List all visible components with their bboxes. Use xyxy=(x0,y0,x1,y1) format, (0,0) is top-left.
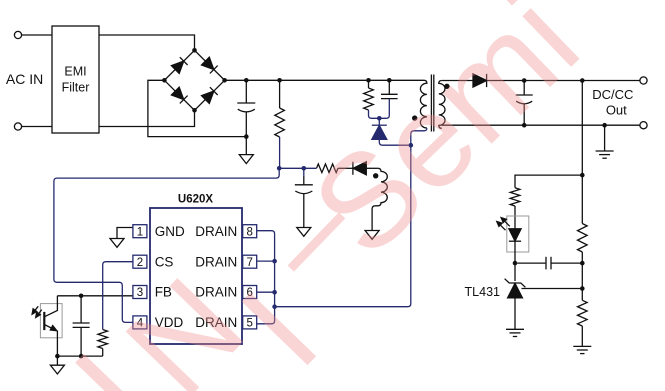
ground opto (arrow style) xyxy=(56,356,58,365)
terminal AC top xyxy=(14,31,21,38)
wire pin1 to ground xyxy=(117,228,133,239)
diode output D5 xyxy=(473,74,487,87)
ground output (earth style) xyxy=(604,125,606,151)
ground aux (arrow style) xyxy=(365,231,379,240)
capacitor snubber C2 xyxy=(388,80,390,94)
terminal AC bottom xyxy=(14,123,21,130)
pin 8 box xyxy=(243,225,257,238)
svg-text:DC/CC: DC/CC xyxy=(592,87,633,102)
bridge diode D-BR (anode bottom vertex, cathode right) xyxy=(202,91,214,103)
wire CS loop pin2 to resistor xyxy=(103,262,133,330)
svg-text:Filter: Filter xyxy=(62,81,90,95)
wire VDD long loop to pin4 xyxy=(54,168,279,322)
resistor startup R1 upper xyxy=(279,80,281,108)
node bridge right xyxy=(222,78,227,83)
resistor aux R4 horizontal xyxy=(317,164,338,173)
node bridge top xyxy=(192,48,197,53)
node pin6 xyxy=(272,290,277,295)
svg-text:DRAIN: DRAIN xyxy=(195,254,237,269)
svg-text:TL431: TL431 xyxy=(465,285,500,299)
node DC minus at cap xyxy=(244,134,249,139)
node output cap top xyxy=(522,78,527,83)
resistor divider upper R6 xyxy=(578,224,588,253)
terminal DC out minus xyxy=(640,122,647,129)
wire pin6 stub xyxy=(257,291,275,293)
wire FB rail xyxy=(57,295,132,297)
capacitor bulk C1 (polarized) xyxy=(245,80,247,103)
wire EMI to bridge top xyxy=(99,35,195,50)
node top rail at bulk cap xyxy=(244,78,249,83)
wire output top rail xyxy=(487,80,640,82)
node divider mid at cap xyxy=(580,261,585,266)
ground divider (earth style) xyxy=(573,345,591,347)
svg-text:7: 7 xyxy=(246,257,252,269)
wire pin7 stub xyxy=(257,260,275,262)
transformer T1 secondary winding xyxy=(439,81,445,129)
bridge diode D-TR (anode top vertex, cathode right) xyxy=(202,57,214,69)
wire primary bottom to drain pins xyxy=(275,128,427,307)
node pin7 xyxy=(272,259,277,264)
svg-text:1: 1 xyxy=(137,226,143,238)
ground TL431 (earth style) xyxy=(506,328,524,330)
svg-text:2: 2 xyxy=(137,257,143,269)
wire fb divider vertical xyxy=(581,81,583,224)
resistor divider lower R7 xyxy=(578,300,588,326)
node output cap bottom xyxy=(522,123,527,128)
wire VDD net rail xyxy=(279,167,316,169)
optocoupler LED xyxy=(509,229,521,241)
IC U620X group xyxy=(133,194,257,345)
optocoupler LED box xyxy=(507,216,529,252)
LED light arrows xyxy=(499,223,506,230)
ground VDD cap (arrow style) xyxy=(297,228,311,237)
wire secondary bottom rail xyxy=(442,124,640,126)
resistor CS R3 xyxy=(98,330,108,349)
transformer T1 aux winding xyxy=(372,168,387,230)
optocoupler transistor box xyxy=(40,304,62,338)
TL431 U2 xyxy=(505,279,526,288)
wire LED to TL431 xyxy=(514,241,516,281)
wire snubber R lower lead xyxy=(369,110,380,118)
transformer T1 primary winding xyxy=(420,80,426,128)
T1 aux phase dot xyxy=(373,173,378,178)
wire DC minus rail xyxy=(148,80,246,136)
node gnd rail left xyxy=(55,354,60,359)
pin 2 box xyxy=(133,255,147,268)
wire startup R lower lead xyxy=(278,137,280,168)
node divider ref xyxy=(580,286,585,291)
capacitor output C5 (polarized) xyxy=(523,81,525,96)
navy wires group xyxy=(54,99,427,330)
transformer T1 core xyxy=(430,75,432,132)
wire secondary top to diode xyxy=(442,80,473,82)
op IC body U620X xyxy=(150,208,242,344)
wire DC plus top rail xyxy=(225,79,424,81)
EMI filter box xyxy=(52,26,99,133)
pin 3 box xyxy=(133,286,147,299)
node VDD net left xyxy=(277,166,282,171)
wire AC bottom to EMI xyxy=(22,126,52,128)
node FB at cap xyxy=(79,294,84,299)
bridge rectifier frame xyxy=(164,50,224,110)
wire bottom gnd rail xyxy=(57,355,102,357)
node drain tee xyxy=(272,304,277,309)
wire diode to aux winding xyxy=(366,167,378,169)
resistor snubber R2 xyxy=(368,80,370,88)
node clamp to drain line xyxy=(409,143,414,148)
optocoupler transistor Q1 xyxy=(43,312,45,330)
capacitor VDD C3 (polarized) xyxy=(303,176,305,185)
wire EMI to bridge bottom xyxy=(99,110,195,126)
svg-text:AC IN: AC IN xyxy=(6,71,43,87)
ground bulk (arrow style) xyxy=(245,137,247,155)
svg-text:GND: GND xyxy=(155,224,185,239)
node output fb branch top xyxy=(580,78,585,83)
wire VDD cap upper lead xyxy=(303,168,305,176)
pin 7 box xyxy=(243,255,257,268)
wire aux resistor to diode xyxy=(338,167,353,169)
svg-text:EMI: EMI xyxy=(64,65,86,79)
svg-text:DRAIN: DRAIN xyxy=(195,224,237,239)
pin 5 box xyxy=(243,316,257,329)
wire to opto-led branch xyxy=(515,175,582,188)
node bridge bottom xyxy=(192,108,197,113)
bridge diode D-TL (anode left vertex, cathode top) xyxy=(171,61,183,73)
node fb branch split xyxy=(580,173,585,178)
svg-text:Out: Out xyxy=(606,103,627,118)
svg-text:U620X: U620X xyxy=(178,194,213,206)
pin 1 box xyxy=(133,225,147,238)
capacitor compensation C6 xyxy=(517,262,546,264)
node gnd rail cap xyxy=(79,354,84,359)
node top rail at snubber resistor xyxy=(366,78,371,83)
wire snubber C lower lead xyxy=(379,99,389,119)
node top rail at snubber cap xyxy=(387,78,392,83)
pin 6 box xyxy=(243,286,257,299)
terminal DC out plus xyxy=(640,77,647,84)
TL431 ref wire xyxy=(522,288,583,290)
node output gnd xyxy=(602,123,607,128)
capacitor opto C4 xyxy=(80,296,82,323)
opto light arrows xyxy=(33,306,38,312)
diode aux D4 (cathode left) xyxy=(352,162,354,175)
wire drain pin rail xyxy=(257,231,275,324)
node bridge left xyxy=(162,78,167,83)
node VDD net cap xyxy=(302,166,307,171)
T1 secondary phase dot xyxy=(444,84,449,89)
pin 4 box xyxy=(133,316,147,329)
resistor opto-led series R5 xyxy=(510,188,520,206)
wire AC top to EMI xyxy=(22,34,52,36)
ground IC pin1 (arrow style) xyxy=(110,239,124,248)
T1 primary phase dot xyxy=(412,115,417,120)
node snubber to clamp diode xyxy=(377,116,382,121)
node top rail at startup resistor xyxy=(277,78,282,83)
bridge diode D-BL (anode left vertex, cathode bottom) xyxy=(171,87,183,99)
node TL431 cathode / comp cap xyxy=(513,261,518,266)
clamp diode D3 (TVS) xyxy=(378,118,380,125)
